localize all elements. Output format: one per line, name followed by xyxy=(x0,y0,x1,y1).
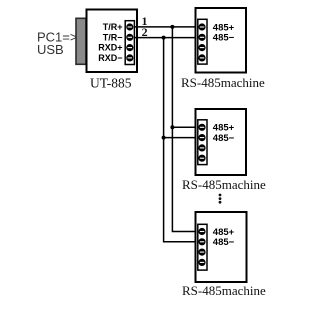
pin labels U1 xyxy=(98,22,122,63)
machine M1 terminal strip xyxy=(198,19,207,64)
terminal M2 485- screw xyxy=(198,134,205,141)
machine M2 terminal strip xyxy=(198,120,207,165)
svg-text:RXD+: RXD+ xyxy=(98,43,122,53)
machine M3 body xyxy=(196,212,247,282)
svg-text:RS-485machine: RS-485machine xyxy=(182,177,266,192)
svg-text:RS-485machine: RS-485machine xyxy=(181,75,265,90)
terminal M2 screw 4 xyxy=(198,155,205,162)
wire 1 T/R+ to machine1 485+ xyxy=(134,26,198,28)
svg-text:485−: 485− xyxy=(213,133,235,144)
converter U1 UT-885 body xyxy=(87,10,138,73)
terminal M1 485+ screw xyxy=(198,23,205,30)
junction on wire 1 xyxy=(170,25,174,29)
svg-text:RXD−: RXD− xyxy=(98,53,122,63)
wire bus A vertical 485+ xyxy=(172,27,197,232)
machine M1 body xyxy=(196,8,247,73)
svg-text:UT-885: UT-885 xyxy=(90,76,132,91)
wire 2 T/R- to machine1 485- xyxy=(134,37,198,39)
junction bus A machine2 tap xyxy=(170,125,174,129)
junction on wire 2 xyxy=(162,36,166,40)
svg-text:485−: 485− xyxy=(213,237,235,248)
terminal M2 485+ screw xyxy=(198,124,205,131)
node PC1 USB label xyxy=(37,30,77,58)
svg-text:RS-485machine: RS-485machine xyxy=(182,283,266,298)
converter U1 terminal strip xyxy=(125,21,134,65)
wire tap machine2 485- xyxy=(164,137,198,139)
terminal M2 screw 3 xyxy=(198,144,205,151)
terminal U1 pin 1 T/R+ screw xyxy=(126,23,133,30)
pin labels M2 485+ 485- xyxy=(213,123,235,144)
terminal M3 screw 4 xyxy=(198,259,205,266)
svg-text:2: 2 xyxy=(142,25,148,39)
svg-text:T/R+: T/R+ xyxy=(103,22,123,32)
terminal M1 485- screw xyxy=(198,34,205,41)
terminal M3 485+ screw xyxy=(198,228,205,235)
wire bus B vertical 485- xyxy=(164,38,198,242)
pin labels M3 485+ 485- xyxy=(213,227,235,248)
svg-text:T/R−: T/R− xyxy=(103,32,123,42)
ellipsis continuation dots xyxy=(219,194,222,204)
junction bus B machine2 tap xyxy=(162,136,166,140)
terminal U1 pin 3 RXD+ screw xyxy=(126,44,133,51)
terminal U1 pin 4 RXD- screw xyxy=(126,54,133,61)
terminal M3 screw 3 xyxy=(198,249,205,256)
machine M2 body xyxy=(196,109,247,175)
wire tap machine2 485+ xyxy=(172,126,197,128)
svg-text:USB: USB xyxy=(37,42,64,57)
terminal M1 screw 3 xyxy=(198,44,205,51)
USB connector plug xyxy=(76,18,86,64)
pin labels M1 485+ 485- xyxy=(213,22,235,43)
terminal M3 485- screw xyxy=(198,238,205,245)
terminal U1 pin 2 T/R- screw xyxy=(126,34,133,41)
terminal M1 screw 4 xyxy=(198,54,205,61)
svg-text:485−: 485− xyxy=(213,33,235,44)
machine M3 terminal strip xyxy=(198,224,207,270)
